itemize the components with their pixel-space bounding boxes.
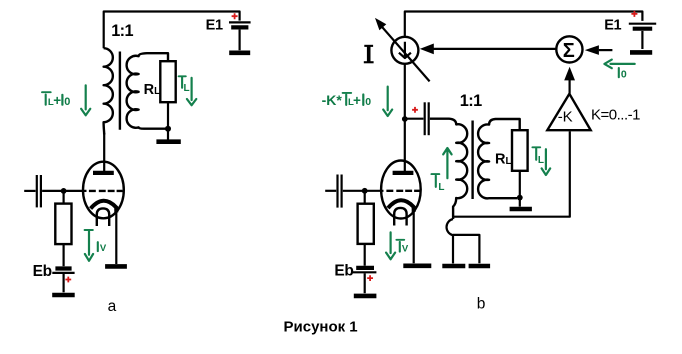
svg-text:Рисунок 1: Рисунок 1 (284, 319, 358, 336)
svg-text:K=0...-1: K=0...-1 (591, 106, 640, 123)
label IL+I0 (green, left of transformer a) (42, 92, 70, 108)
wire: crossover hop on primary ground lead (circuit b) (447, 219, 453, 235)
resistor Rg (circuit b) (358, 204, 374, 244)
resistor RL (circuit a) (160, 61, 175, 102)
ground (E1, circuit b) (630, 50, 652, 55)
svg-text:1:1: 1:1 (111, 22, 133, 40)
svg-text:+: + (53, 93, 61, 108)
wire: -K output into summator (up arrowhead) (564, 67, 575, 94)
polarity + of Eb (circuit a) (65, 277, 71, 283)
capacitor C2 coupling (circuit b) (407, 102, 429, 135)
triode V2 heater loop (394, 208, 406, 226)
arrow: variability stroke through current source (375, 18, 430, 82)
ground (secondary return, circuit b) (469, 264, 491, 269)
ground (primary, circuit b) (442, 264, 465, 269)
transformer T1 core (119, 52, 121, 130)
wire: RL bottom to node (circuit a) (167, 102, 169, 127)
svg-text:Eb: Eb (334, 263, 353, 280)
svg-text:Eb: Eb (33, 263, 52, 280)
label I0 (green, circuit b) (619, 68, 627, 80)
arrow: IV cathode current (down, with top bar, circuit a) (85, 230, 94, 261)
wire: RL bottom to node (circuit b) (519, 171, 521, 196)
polarity + of E1 (circuit a) (232, 13, 238, 19)
label IV (green, with overbar, circuit b) (396, 240, 409, 255)
wire: primary ground lead below hop (452, 235, 454, 263)
label IV (green, circuit a) (98, 242, 107, 254)
wire: summator output to current source (with arrowhead) (420, 44, 557, 55)
wire: -K input from transformer primary bottom (453, 131, 570, 216)
ground (Eb, circuit b) (354, 294, 377, 299)
svg-text:Σ: Σ (563, 40, 575, 62)
node: RL / secondary junction (circuit b) (517, 195, 523, 201)
current source I (circle with down arrow, circuit b) (391, 37, 418, 64)
arrow: I0 (green, into summator) (604, 60, 634, 69)
polarity + at coupling capacitor (circuit b) (412, 107, 418, 113)
arrow: IL in primary (green, up, circuit b) (443, 148, 451, 178)
capacitor C1 input (circuit a) (24, 175, 86, 207)
wire: resistor to Eb (circuit b) (364, 244, 366, 266)
summator U2 (sigma circle) (556, 36, 582, 62)
wire: node to grid resistor (circuit a) (62, 193, 64, 204)
node: grid junction (circuit a) (61, 188, 67, 194)
resistor RL (circuit b) (512, 130, 528, 171)
svg-text:+: + (353, 93, 361, 108)
triode V1 cathode arc (91, 201, 117, 213)
polarity + of E1 (circuit b) (631, 11, 637, 17)
arrow: IL+I0 direction (down, circuit a) (81, 85, 90, 115)
svg-text:V: V (402, 244, 409, 255)
svg-text:0: 0 (64, 96, 70, 108)
svg-text:-K: -K (558, 108, 573, 125)
wire: resistor to Eb (circuit a) (62, 244, 64, 266)
arrow: -K*IL+I0 direction (down, circuit b) (383, 87, 392, 116)
triode V1 grid (dashed) (89, 190, 123, 192)
svg-text:E1: E1 (206, 18, 223, 34)
wire: node to grid resistor (circuit b) (364, 193, 366, 204)
polarity + of Eb (circuit b) (367, 275, 373, 281)
amplifier -K (triangle, circuit b) (547, 94, 590, 130)
svg-text:V: V (100, 243, 107, 254)
svg-text:0: 0 (365, 96, 371, 108)
arrow: IL direction (down, circuit b) (542, 149, 551, 175)
transformer T1 primary winding (circuit a) (104, 48, 113, 134)
label IL current (green, right of RL, circuit a) (179, 76, 190, 94)
triode V1 anode plate bar (93, 171, 114, 175)
triode V2 cathode arc (388, 200, 414, 212)
battery Eb (circuit a) (52, 269, 74, 293)
wire: anode lead from primary bottom to tube plate (circuit a) (103, 133, 105, 172)
triode V2 envelope (circuit b) (381, 161, 421, 219)
node: RL / secondary junction (circuit a) (165, 126, 171, 132)
wire: cathode lead down (circuit a) (115, 210, 117, 264)
wire: current source down through node to tube plate (circuit b) (404, 64, 406, 171)
label IL (green, right of RL, circuit b) (532, 147, 544, 166)
transformer T1 secondary winding (circuit a) (127, 53, 168, 129)
triode V1 heater loop (97, 208, 109, 226)
resistor Rg (circuit a) (55, 204, 71, 245)
wire: cathode lead down (circuit b) (413, 210, 415, 264)
triode V2 anode plate bar (393, 171, 414, 175)
svg-text:a: a (108, 298, 117, 315)
ground (cathode, circuit a) (105, 264, 127, 269)
capacitor C3 input (circuit b) (325, 175, 383, 208)
transformer T2 secondary winding (circuit b) (478, 119, 520, 198)
battery Eb (circuit b) (353, 268, 377, 293)
wire: secondary return to right ground (circuit b) (453, 235, 479, 263)
ground (Eb, circuit a) (52, 293, 74, 298)
arrow: IV cathode current (down, circuit b) (386, 232, 395, 259)
ground (RL, circuit a) (156, 130, 180, 142)
ground (cathode, circuit b) (403, 263, 431, 268)
svg-text:L: L (184, 83, 190, 94)
node: grid junction (circuit b) (362, 188, 368, 194)
battery E1 (circuit b) (629, 24, 656, 49)
battery E1 (circuit a) (229, 22, 251, 50)
label -K*IL+I0 (green, circuit b) (322, 92, 372, 108)
ground (E1, circuit a) (229, 50, 250, 55)
node: capacitor tap junction (circuit b) (402, 116, 408, 122)
svg-text:1:1: 1:1 (460, 92, 482, 110)
svg-text:-K*: -K* (322, 92, 343, 108)
label I (bold serif, circuit b) (364, 45, 374, 64)
wire: circuit b top rail from current source to E1 (405, 12, 643, 38)
transformer T2 primary winding (circuit b) (430, 119, 467, 219)
wire: circuit a top rail from transformer primary to E1 (104, 12, 240, 49)
transformer T2 core (471, 121, 473, 200)
triode V2 grid (dashed) (386, 190, 420, 192)
label IL (green, left of transformer b) (431, 174, 444, 193)
ground (RL, circuit b) (510, 200, 532, 210)
triode V1 envelope (circuit a) (83, 162, 124, 219)
svg-text:b: b (477, 296, 486, 313)
svg-text:E1: E1 (604, 18, 621, 34)
arrow: IL direction (down, circuit a) (187, 78, 196, 105)
svg-text:0: 0 (621, 68, 627, 80)
svg-text:L: L (438, 182, 444, 193)
svg-text:L: L (538, 155, 544, 166)
wire: E1 feed into summator (arrowhead left) (585, 45, 613, 55)
